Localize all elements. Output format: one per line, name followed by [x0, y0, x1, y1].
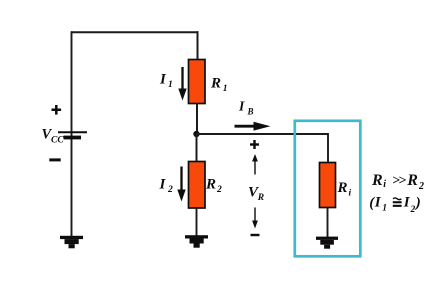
svg-text:I: I [238, 99, 245, 114]
svg-text:I: I [374, 195, 382, 211]
ground (Ri) [316, 237, 338, 249]
svg-text:1: 1 [168, 80, 173, 90]
arrow IB [235, 122, 271, 131]
label + (battery) [52, 105, 62, 115]
label R1 [210, 76, 228, 95]
svg-text:CC: CC [51, 136, 64, 146]
svg-text:): ) [414, 195, 421, 211]
wire R1 top [197, 31, 199, 60]
svg-text:R: R [406, 172, 418, 189]
label - (battery) [49, 158, 60, 161]
label R2 [205, 177, 222, 196]
svg-text:2: 2 [216, 185, 222, 195]
label I2 [159, 177, 174, 196]
label IB [238, 99, 254, 117]
wire R2 to ground [196, 208, 198, 236]
wire R1 bottom to node [196, 103, 198, 135]
ground (R2) [185, 235, 208, 248]
arrow VR up [252, 154, 258, 175]
label - (VR) [251, 234, 260, 236]
arrow I2 [177, 167, 185, 202]
label Ri [337, 180, 352, 199]
svg-text:R: R [337, 180, 348, 196]
label VCC [42, 127, 65, 146]
label + (VR) [250, 140, 259, 149]
text (I1 = I2) [369, 195, 421, 216]
wire box vertical into Ri [327, 133, 329, 163]
svg-text:2: 2 [410, 205, 416, 215]
node junction dot [193, 131, 199, 137]
svg-text:R: R [257, 193, 264, 203]
svg-text:2: 2 [418, 181, 424, 192]
svg-text:2: 2 [167, 185, 173, 195]
wire node to R2 [196, 134, 198, 162]
battery VCC [58, 132, 87, 139]
text Ri >> R2 [371, 172, 424, 192]
highlight box (cyan) [295, 121, 361, 256]
svg-text:R: R [210, 76, 221, 92]
svg-text:1: 1 [223, 84, 228, 94]
resistor Ri [320, 163, 336, 208]
svg-text:i: i [383, 179, 386, 190]
wire top horizontal [71, 31, 199, 33]
resistor R2 [189, 162, 206, 209]
svg-text:I: I [159, 72, 167, 88]
wire left vertical [71, 31, 73, 236]
resistor R1 [189, 60, 206, 104]
svg-text:1: 1 [382, 204, 387, 214]
svg-text:>: > [398, 174, 406, 189]
label I1 [159, 72, 173, 91]
svg-text:I: I [159, 177, 167, 193]
wire node to box (horizontal) [197, 133, 329, 135]
svg-text:i: i [349, 189, 352, 199]
svg-text:B: B [247, 107, 254, 117]
svg-text:R: R [371, 172, 383, 189]
wire Ri to ground [327, 208, 329, 238]
arrow VR down [252, 208, 258, 229]
arrow I1 [178, 67, 186, 101]
svg-text:R: R [205, 177, 216, 193]
label VR [248, 185, 264, 204]
ground (left) [60, 236, 83, 249]
